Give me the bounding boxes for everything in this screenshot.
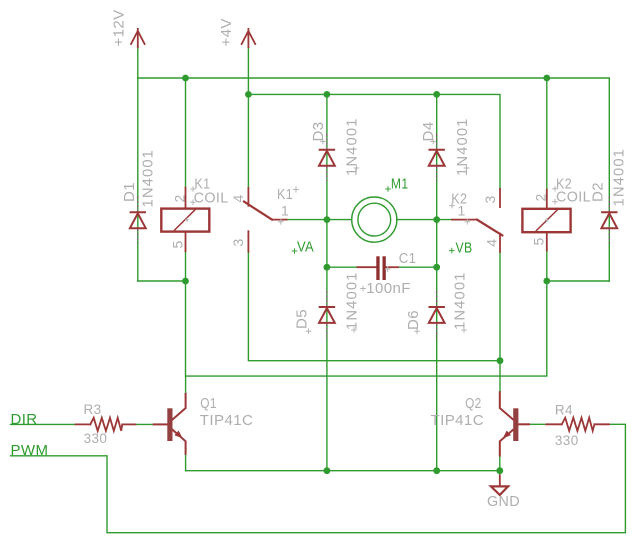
svg-text:1N4001: 1N4001 — [454, 118, 471, 177]
svg-text:1N4001: 1N4001 — [140, 149, 157, 208]
svg-text:PWM: PWM — [11, 442, 49, 459]
svg-text:330: 330 — [84, 431, 108, 446]
svg-text:Q1: Q1 — [200, 395, 217, 412]
svg-text:D2: D2 — [590, 182, 607, 202]
svg-text:3: 3 — [230, 239, 246, 247]
svg-text:4: 4 — [484, 239, 500, 247]
svg-text:+12V: +12V — [111, 9, 128, 46]
svg-text:3: 3 — [482, 196, 498, 204]
svg-text:4: 4 — [230, 195, 246, 203]
svg-text:D4: D4 — [420, 122, 437, 142]
svg-text:GND: GND — [487, 493, 520, 510]
svg-text:330: 330 — [555, 433, 579, 448]
svg-text:C1: C1 — [399, 250, 417, 267]
svg-text:COIL: COIL — [556, 188, 591, 205]
svg-text:VA: VA — [297, 239, 314, 256]
svg-text:D5: D5 — [294, 309, 311, 329]
svg-text:COIL: COIL — [194, 189, 229, 206]
svg-text:TIP41C: TIP41C — [200, 412, 254, 429]
svg-text:R4: R4 — [555, 402, 573, 417]
svg-text:2: 2 — [172, 195, 188, 203]
svg-text:5: 5 — [170, 241, 186, 249]
svg-text:M1: M1 — [391, 176, 409, 193]
svg-text:1: 1 — [281, 202, 289, 218]
svg-text:D3: D3 — [310, 122, 327, 142]
svg-text:1N4001: 1N4001 — [452, 272, 469, 331]
svg-text:VB: VB — [456, 239, 473, 256]
svg-text:1: 1 — [458, 203, 466, 219]
svg-text:+4V: +4V — [218, 18, 235, 46]
svg-text:1N4001: 1N4001 — [344, 118, 361, 177]
svg-text:R3: R3 — [84, 402, 102, 417]
svg-text:100nF: 100nF — [366, 280, 411, 297]
svg-text:1N4001: 1N4001 — [611, 148, 628, 207]
svg-text:TIP41C: TIP41C — [431, 412, 485, 429]
svg-text:2: 2 — [533, 194, 549, 202]
svg-text:D6: D6 — [405, 310, 422, 330]
svg-text:5: 5 — [531, 238, 547, 246]
svg-text:DIR: DIR — [11, 411, 38, 428]
svg-text:1N4001: 1N4001 — [344, 272, 361, 331]
svg-text:Q2: Q2 — [465, 395, 482, 412]
svg-text:D1: D1 — [121, 182, 138, 202]
svg-text:K1: K1 — [277, 186, 293, 203]
